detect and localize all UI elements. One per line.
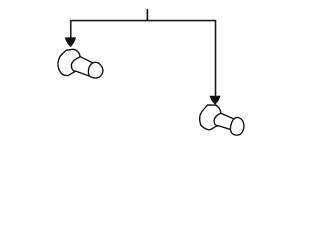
callout label 1 tick [146, 9, 148, 21]
bolt B1 shank bottom line [76, 71, 89, 76]
arrowhead to left bolt [65, 37, 77, 47]
bolt B2 head outline [200, 105, 221, 130]
bolt B1 head/shank intersection arc [71, 57, 80, 72]
bolt B1 shank top line [80, 57, 93, 63]
bolt B1 (left) [58, 49, 103, 78]
bolt B2 shank end face [230, 117, 243, 135]
arrowhead to right bolt [209, 96, 220, 105]
bolt B2 head/shank intersection arc [214, 113, 221, 125]
bolt B1 head outline [58, 49, 80, 75]
bolt B2 shank bottom line [218, 126, 231, 130]
wire right vertical leader [215, 21, 217, 97]
callout bracket top horizontal wire [71, 20, 216, 22]
wire left vertical leader [70, 21, 72, 39]
bolt B2 (right) [200, 105, 244, 135]
bolt B2 shank top line [221, 113, 234, 119]
bolt B1 shank end face [88, 62, 103, 78]
